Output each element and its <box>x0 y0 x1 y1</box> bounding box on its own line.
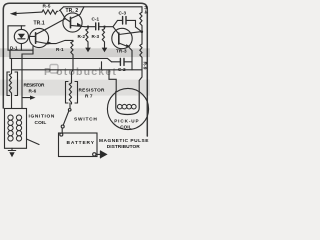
svg-text:C-2: C-2 <box>118 67 126 72</box>
transistor TR-3 <box>112 28 132 48</box>
svg-text:RESISTOR: RESISTOR <box>79 88 106 93</box>
wire R-6 to coil <box>11 96 13 109</box>
battery terminal and arrow <box>93 153 96 156</box>
svg-text:TR. 2: TR. 2 <box>66 8 79 14</box>
node collector junction <box>141 30 144 33</box>
resistor R-6 ballast box <box>7 72 10 96</box>
node TR-2 base junction <box>46 19 71 30</box>
svg-text:IGNITION: IGNITION <box>29 114 55 120</box>
resistor R-7 ballast box <box>66 82 69 104</box>
wire branch line <box>12 69 143 71</box>
ignition coil box <box>5 109 27 149</box>
wire C-1 to TR-3 base <box>105 27 119 34</box>
resistor R-1 <box>71 40 73 58</box>
svg-text:R-5: R-5 <box>43 4 51 10</box>
svg-text:C-1: C-1 <box>92 17 100 22</box>
svg-text:C-3: C-3 <box>119 11 127 16</box>
diode D-1 <box>14 29 28 43</box>
wire TR-3 emitter down <box>131 51 133 70</box>
svg-text:TR-3: TR-3 <box>116 49 127 54</box>
capacitor C-1 <box>95 23 97 30</box>
watermark logo <box>50 65 58 74</box>
svg-text:COIL: COIL <box>35 120 47 126</box>
wire left feed with arrow <box>15 12 42 14</box>
svg-text:R-1: R-1 <box>56 47 64 52</box>
resistor R-4 <box>140 7 142 28</box>
svg-text:D-1: D-1 <box>10 45 18 50</box>
arrow to switch <box>22 97 31 99</box>
svg-text:R 7: R 7 <box>85 94 93 99</box>
capacitor C-3 <box>122 17 124 24</box>
svg-text:MAGNETIC PULSE: MAGNETIC PULSE <box>99 138 149 144</box>
wire base node to C-3 <box>113 20 122 26</box>
watermark band lower <box>0 80 150 96</box>
svg-text:R-2: R-2 <box>78 34 86 39</box>
magnetic pulse distributor circle <box>107 88 148 129</box>
wire top rail <box>60 7 143 11</box>
resistor R-9 <box>140 44 142 59</box>
wire coil to ground <box>11 148 13 150</box>
ground below R-3 <box>102 48 108 53</box>
watermark band upper <box>0 48 150 57</box>
wire TR-1 lead down to coil <box>22 54 33 109</box>
svg-text:PICK-UP: PICK-UP <box>114 119 139 124</box>
svg-text:DISTRIBUTOR: DISTRIBUTOR <box>107 144 140 150</box>
svg-text:BATTERY: BATTERY <box>67 140 95 146</box>
amplifier box around D-1 <box>8 26 33 50</box>
battery box <box>59 133 98 157</box>
svg-text:R-4: R-4 <box>143 6 149 14</box>
transistor TR.2 <box>63 13 82 32</box>
coil primary winding <box>8 115 13 141</box>
svg-text:R-3: R-3 <box>92 34 100 39</box>
node R-2 junction <box>87 26 89 28</box>
pick-up coil loops <box>117 104 136 109</box>
svg-text:P otobucket: P otobucket <box>44 66 116 78</box>
wire to pickup right lead <box>139 70 142 92</box>
wire to pickup left lead <box>109 70 116 92</box>
node R-3 junction <box>103 26 105 28</box>
wire feed line <box>10 58 112 61</box>
frame border <box>3 3 147 136</box>
wire TR-2 emitter to C-1 <box>85 26 96 28</box>
wire R-5 node to TR-2 base <box>61 11 66 19</box>
wire R-6 top <box>11 58 13 72</box>
ground below coil <box>8 150 15 152</box>
resistor R-3 <box>102 27 104 45</box>
wire R-1 to R-7 <box>72 58 74 81</box>
resistor R-5 <box>42 10 58 14</box>
svg-text:TR.1: TR.1 <box>34 21 45 27</box>
coil secondary winding <box>16 115 21 141</box>
resistor R-2 <box>86 27 88 45</box>
pick-up magnet core U <box>116 92 139 115</box>
svg-text:R-6: R-6 <box>29 89 37 94</box>
wire coil secondary stub <box>27 139 40 145</box>
ground below R-2 <box>85 48 91 53</box>
wire C-2 left down <box>101 62 103 70</box>
svg-text:COIL: COIL <box>120 125 131 130</box>
svg-text:SWITCH: SWITCH <box>74 116 97 122</box>
svg-text:RESISTOR: RESISTOR <box>24 83 46 88</box>
transistor TR.1 <box>29 28 48 47</box>
capacitor C-2 <box>112 61 121 63</box>
switch <box>69 103 71 109</box>
